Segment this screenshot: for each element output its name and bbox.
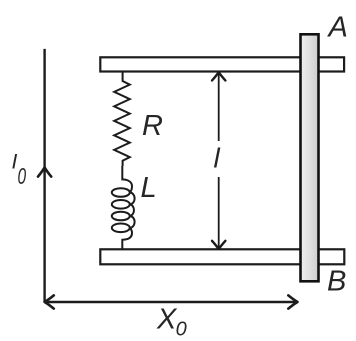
svg-text:L: L — [141, 172, 157, 204]
svg-text:0: 0 — [18, 163, 27, 189]
svg-text:l: l — [214, 142, 221, 173]
svg-text:0: 0 — [176, 319, 187, 341]
svg-text:B: B — [327, 265, 346, 297]
svg-text:A: A — [327, 11, 348, 43]
svg-text:R: R — [142, 110, 163, 142]
